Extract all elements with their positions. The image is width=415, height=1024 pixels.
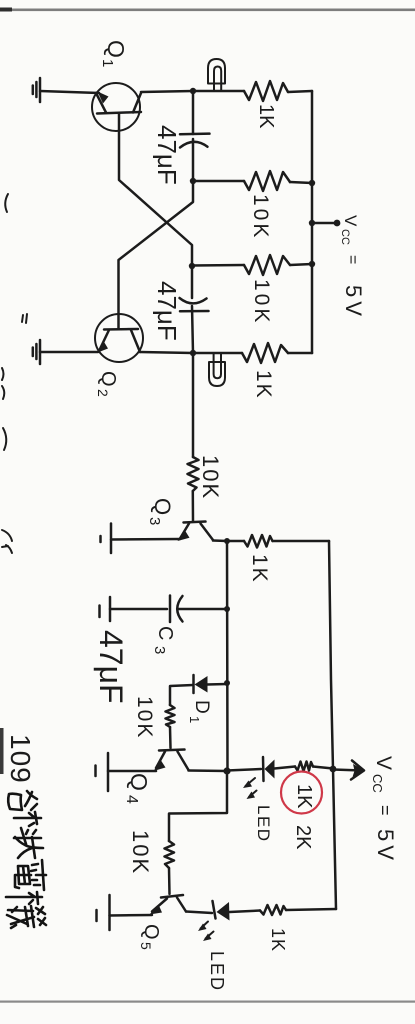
ground GND5 (Q4 emitter) xyxy=(96,753,109,791)
scan artifact bottom band xyxy=(0,1001,415,1003)
svg-text:Q: Q xyxy=(126,773,152,791)
label 1K (R6) xyxy=(248,554,271,584)
handwritten note char 機 xyxy=(6,892,46,928)
resistor R8 10K (to Q5 base) xyxy=(165,841,175,868)
wire LED2 to R10 xyxy=(230,911,261,913)
handwritten note char 大 xyxy=(15,837,43,858)
wire C3 to rail A xyxy=(179,608,227,611)
wire R1 to Vcc rail xyxy=(288,91,312,92)
svg-text:1: 1 xyxy=(99,59,116,67)
junction rail A at D1 xyxy=(224,680,230,686)
svg-text:V: V xyxy=(341,215,360,227)
wire node D to resistor R4 xyxy=(193,352,242,355)
svg-text:CC: CC xyxy=(370,774,385,793)
scan artifact left edge blob xyxy=(0,728,4,774)
LED2 xyxy=(198,901,230,941)
stray mark squiggle (left edge mid) xyxy=(2,368,4,399)
svg-text:1: 1 xyxy=(187,716,202,723)
junction on rail at tap xyxy=(309,220,315,226)
wire Q5 collector to LED2 xyxy=(186,912,212,914)
wire node B to resistor R2 xyxy=(193,180,244,183)
svg-text:1K: 1K xyxy=(268,928,288,952)
resistor R2 10K (second row) xyxy=(244,171,290,191)
svg-text:Q: Q xyxy=(150,498,175,515)
wire Q2 collector to node D xyxy=(140,352,193,353)
resistor R4 1K (fourth row) xyxy=(242,343,288,363)
wire node F to LED1 xyxy=(227,769,261,771)
red circle annotation around 1K xyxy=(281,772,322,814)
svg-text:D: D xyxy=(191,700,212,714)
label 1K (R10) xyxy=(268,928,288,952)
svg-text:47μF: 47μF xyxy=(152,125,182,185)
svg-text:47μF: 47μF xyxy=(93,630,129,704)
junction on rail at R2 xyxy=(309,180,315,186)
node E junction xyxy=(224,538,230,544)
capacitor C1 plates xyxy=(180,134,210,148)
label LED (LED1) xyxy=(254,805,273,843)
wire R5 to Q3 base xyxy=(192,491,195,521)
label 47uF (C3) xyxy=(93,630,129,704)
stray mark paren (upper left) xyxy=(5,194,8,212)
node B junction xyxy=(190,178,196,184)
wire R10 to rail corner xyxy=(286,909,336,910)
label LED (LED2) xyxy=(207,951,227,992)
wire ground to Q1 emitter xyxy=(40,91,99,93)
svg-text:CC: CC xyxy=(339,229,351,245)
wire ground to C3 xyxy=(110,608,167,611)
wire ground to Q4 emitter xyxy=(108,770,156,773)
svg-text:10K: 10K xyxy=(249,194,272,240)
ground GND3 (Q3 emitter) xyxy=(101,524,112,554)
node D junction xyxy=(190,350,196,356)
label 47uF (C2) xyxy=(152,281,182,341)
wire ground to Q5 emitter xyxy=(110,914,153,917)
wire node A to capacitor C1 xyxy=(192,91,195,134)
Vcc arrow (bottom) xyxy=(333,761,365,780)
label 10K (R2) xyxy=(249,194,272,240)
wire Q4 collector to node F xyxy=(189,769,228,772)
node A junction xyxy=(190,88,196,94)
transistor Q1 xyxy=(92,83,141,131)
svg-text:1K: 1K xyxy=(248,554,271,584)
svg-text:10K: 10K xyxy=(128,830,153,875)
right rail (Vcc, lower section) xyxy=(329,541,336,909)
svg-text:1K: 1K xyxy=(255,104,277,129)
svg-text:LED: LED xyxy=(207,951,227,992)
transistor Q2 xyxy=(95,314,143,362)
transistor Q4 xyxy=(154,750,189,772)
Vcc tap terminal dot xyxy=(334,220,341,227)
wire R4 to Vcc rail xyxy=(288,352,312,355)
wire D1 to R7 xyxy=(170,685,193,705)
svg-text:V: V xyxy=(372,756,395,770)
red label 2K xyxy=(292,825,314,850)
svg-text:Q: Q xyxy=(140,924,162,940)
wire R9 to rail junction xyxy=(313,767,333,769)
handwritten note char 電 xyxy=(15,860,46,890)
wire node A to resistor R1 xyxy=(193,90,244,93)
wire LED1 to R9 xyxy=(275,767,296,769)
ground GND6 (Q5 emitter) xyxy=(97,895,110,930)
capacitor C2 plates xyxy=(180,298,209,311)
Vcc rail (top section) xyxy=(311,91,314,353)
svg-text:=: = xyxy=(375,805,395,816)
wire ground to Q2 emitter xyxy=(40,351,98,354)
resistor R10 1K (LED2) xyxy=(260,905,286,915)
label 10K (R5) xyxy=(198,455,223,500)
lamp L1 xyxy=(208,59,225,91)
svg-text:4: 4 xyxy=(123,795,140,804)
resistor R1 1K (top row) xyxy=(244,81,288,101)
cross-coupling wire Q1 base to node C xyxy=(119,114,192,266)
wire R7 to Q4 base xyxy=(169,727,172,748)
rail A (Q3 collector bus) xyxy=(226,541,229,771)
label D1 xyxy=(187,700,212,723)
label Vcc = 5V (top) xyxy=(339,215,366,320)
label Q2 xyxy=(95,371,119,397)
resistor R9 1K (LED1, circled) xyxy=(295,762,313,772)
wire ground to Q3 emitter xyxy=(111,538,180,541)
resistor R5 10K (vertical, to Q3 base) xyxy=(188,457,199,491)
label Q3 xyxy=(146,498,175,525)
wire rail A to diode D1 xyxy=(207,683,227,686)
label 1K (R1) xyxy=(255,104,277,129)
LED1 xyxy=(243,757,275,799)
wire R8 to Q5 base xyxy=(168,868,171,894)
capacitor C3 plates xyxy=(170,596,183,623)
wire C2 to node D xyxy=(192,306,193,353)
label 1K (R4) xyxy=(252,370,275,400)
wire Q1 collector to node A xyxy=(141,91,193,92)
svg-text:2: 2 xyxy=(95,389,111,397)
wire R3 to Vcc rail xyxy=(290,264,312,265)
svg-text:10K: 10K xyxy=(250,279,273,325)
svg-text:5V: 5V xyxy=(341,285,366,320)
label 10K (R7) xyxy=(133,696,156,739)
svg-text:1K: 1K xyxy=(293,784,315,809)
stray mark (bottom left edge) xyxy=(2,530,12,553)
svg-text:1K: 1K xyxy=(252,370,275,400)
svg-text:3: 3 xyxy=(151,646,168,654)
label Q4 xyxy=(123,773,152,804)
label 10K (R3) xyxy=(250,279,273,325)
label Q5 xyxy=(138,924,162,950)
wire node C to resistor R3 xyxy=(192,264,244,267)
svg-text:C: C xyxy=(154,626,176,640)
lamp L2 xyxy=(209,353,225,386)
wire node F down to R8 xyxy=(169,771,227,841)
wire R6 to right rail xyxy=(273,540,330,543)
resistor R3 10K (third row) xyxy=(244,255,290,275)
wire R2 to Vcc rail xyxy=(290,182,312,183)
ground GND2 (Q2 emitter) xyxy=(33,340,40,364)
handwritten note 109 xyxy=(5,734,36,784)
cross-coupling wire node B to Q2 base xyxy=(119,181,194,329)
wire C1 to node B xyxy=(192,139,195,181)
transistor Q5 xyxy=(150,895,187,915)
stray mark ticks (near Q2) xyxy=(22,314,27,323)
stray mark paren (left edge) xyxy=(3,428,6,450)
wire node C to capacitor C2 xyxy=(191,266,194,298)
svg-text:47μF: 47μF xyxy=(152,281,182,341)
handwritten note char 台 xyxy=(8,791,37,810)
svg-text:109: 109 xyxy=(5,734,36,784)
resistor R6 1K (Q3 collector) xyxy=(244,535,273,548)
resistor R7 10K (to Q4 base) xyxy=(166,705,175,727)
ground GND4 (C3) xyxy=(100,597,111,621)
svg-text:10K: 10K xyxy=(198,455,223,500)
label Vcc = 5V (bottom) xyxy=(370,756,398,864)
wire node E to resistor R6 xyxy=(227,540,244,543)
junction rail at node F row xyxy=(330,766,337,773)
label 47uF (C1) xyxy=(152,125,182,185)
node C junction xyxy=(189,263,195,269)
label 10K (R8) xyxy=(128,830,153,875)
svg-text:LED: LED xyxy=(254,805,273,843)
scan artifact top band xyxy=(0,8,415,12)
label 1K (R9) xyxy=(293,784,315,809)
svg-text:Q: Q xyxy=(103,40,129,58)
label C3 xyxy=(151,626,176,654)
junction on rail at R3 xyxy=(309,261,315,267)
svg-text:Q: Q xyxy=(97,371,119,387)
svg-text:5: 5 xyxy=(138,942,154,950)
wire node D down to R5 xyxy=(192,353,195,457)
label Q1 xyxy=(99,40,129,67)
junction rail A at C3 xyxy=(224,606,230,612)
svg-text:5V: 5V xyxy=(373,829,398,864)
svg-text:2K: 2K xyxy=(292,825,314,850)
transistor Q3 xyxy=(178,522,214,542)
node F junction xyxy=(223,767,230,774)
Vcc tap wire xyxy=(312,222,336,225)
handwritten note char 科 xyxy=(14,812,41,844)
svg-text:=: = xyxy=(344,255,361,264)
svg-text:10K: 10K xyxy=(133,696,156,739)
ground GND1 (Q1 emitter) xyxy=(33,78,40,102)
svg-text:3: 3 xyxy=(146,517,163,525)
wire Q3 collector to node E xyxy=(213,539,227,542)
diode D1 xyxy=(194,675,208,693)
